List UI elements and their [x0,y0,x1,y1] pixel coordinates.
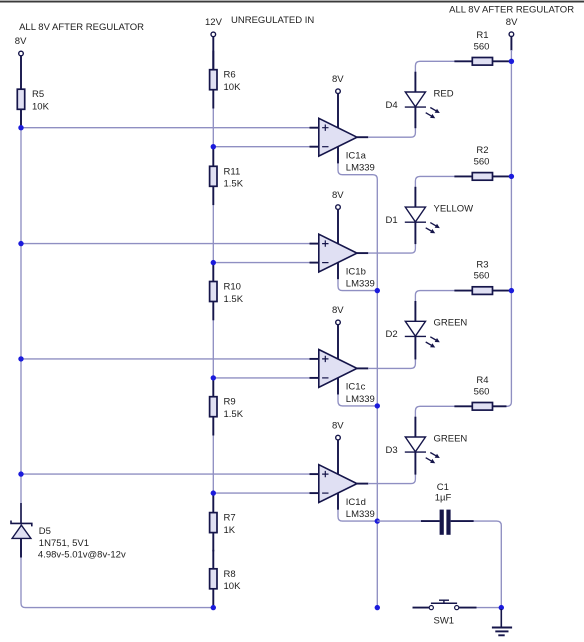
wire R2 to D1 anode [415,176,455,188]
label RED [434,88,454,99]
wire node - input IC1d (from middle rail) [211,490,312,495]
svg-text:8V: 8V [506,17,518,28]
wire right rail 8V [493,50,511,406]
label 8V power IC1d [332,420,344,431]
label R7 1K [224,513,236,536]
resistor R7 [210,494,217,552]
terminal 8V power IC1b [336,205,341,210]
node R2/rail junction [509,174,514,179]
terminal 8V (right) [509,32,514,37]
LED D3 [405,417,440,475]
label R10 1.5K [224,282,244,305]
svg-text:R1: R1 [476,30,488,41]
svg-text:ALL 8V AFTER REGULATOR: ALL 8V AFTER REGULATOR [449,5,574,16]
resistor R2 [454,173,511,181]
capacitor C1 [421,510,474,535]
label IC1c LM339 [346,382,375,405]
wire IC1b output to D1 cathode [368,243,415,253]
op-amp U1 comparator IC1b LM339 [310,210,369,280]
terminal 8V (right) label [506,17,518,28]
wire IC1c ground to bus [338,394,380,408]
wire IC1b ground to bus [338,279,380,293]
wire node - input IC1a (from middle rail) [211,144,312,149]
svg-text:ALL 8V AFTER REGULATOR: ALL 8V AFTER REGULATOR [19,22,144,33]
resistor R1 [454,58,511,66]
wire terminal pin [510,37,512,51]
svg-text:SW1: SW1 [434,615,455,626]
label YELLOW [434,204,474,215]
wire node - input IC1c (from middle rail) [211,375,312,380]
label R4 560 [474,375,490,397]
diode D5 zener [11,521,32,558]
label IC1b LM339 [346,266,375,289]
svg-text:1µF: 1µF [435,493,452,504]
wire terminal to R6 [212,37,214,70]
svg-text:IC1d: IC1d [346,497,366,508]
label SW1 [434,615,455,626]
node bus/bottom rail junction [375,605,380,610]
svg-text:4.98v-5.01v@8v-12v: 4.98v-5.01v@8v-12v [38,550,126,561]
wire IC1d output to D3 cathode [368,474,415,484]
svg-text:1.5K: 1.5K [224,294,244,305]
svg-text:R4: R4 [476,375,488,386]
label 8V power IC1b [332,190,344,201]
resistor R6 [210,51,217,109]
wire left rail (8V divider tap bus) [21,109,213,608]
op-amp U1 comparator IC1a LM339 [310,94,369,164]
resistor R9 [210,378,217,436]
svg-text:GREEN: GREEN [434,433,468,444]
resistor R11 [210,147,217,205]
label R1 560 [474,30,490,52]
svg-text:D2: D2 [386,329,398,340]
resistor R10 [210,263,217,321]
label R3 560 [474,259,490,281]
svg-text:8V: 8V [332,305,344,316]
wire C1 to ground node [474,521,502,608]
LED D2 [405,301,440,359]
note ALL 8V AFTER REGULATOR (left) [19,22,144,33]
svg-text:560: 560 [474,41,490,52]
svg-text:1N751, 5V1: 1N751, 5V1 [39,538,89,549]
svg-text:560: 560 [474,157,490,168]
svg-text:RED: RED [434,88,454,99]
svg-text:IC1b: IC1b [346,266,366,277]
terminal 12V label [205,17,223,28]
svg-text:560: 560 [474,386,490,397]
terminal 8V (left) [19,51,24,56]
svg-text:R5: R5 [32,89,44,100]
svg-text:R2: R2 [476,145,488,156]
wire node + input IC1a (from left rail) [18,125,311,130]
label IC1d LM339 [346,497,375,520]
svg-text:YELLOW: YELLOW [434,204,474,215]
svg-text:560: 560 [474,271,490,282]
note ALL 8V AFTER REGULATOR (right) [449,5,574,16]
svg-text:IC1c: IC1c [346,382,366,393]
terminal 8V power IC1c [336,320,341,325]
wire IC1d gnd node to C1 [377,520,424,522]
label C1 1uF [435,482,452,504]
svg-text:GREEN: GREEN [434,318,468,329]
note UNREGULATED IN [231,15,314,26]
label R8 10K [224,569,242,592]
node R1/rail junction [509,59,514,64]
label R11 1.5K [224,166,244,189]
svg-text:R11: R11 [224,166,241,177]
svg-text:LM339: LM339 [346,394,375,405]
switch SW1 [413,600,477,610]
resistor R3 [454,287,511,295]
node R3/rail junction [509,288,514,293]
terminal 8V power IC1d [336,435,341,440]
svg-text:8V: 8V [15,36,27,47]
LED D4 [405,72,440,129]
wire terminal to R5 [20,56,22,89]
svg-text:10K: 10K [32,102,50,113]
wire R3 to D2 anode [415,291,455,303]
resistor R4 [454,403,506,411]
svg-text:D3: D3 [386,445,398,456]
label IC1a LM339 [346,151,375,174]
label 8V power IC1c [332,305,344,316]
ground [492,609,512,635]
svg-text:D1: D1 [386,215,398,226]
wire R1 to D4 anode [415,61,455,73]
svg-text:8V: 8V [332,190,344,201]
svg-text:LM339: LM339 [346,279,375,290]
label D3 [386,445,398,456]
wire node - input IC1b (from middle rail) [211,260,312,265]
svg-text:D4: D4 [386,100,398,111]
node R8/bottom rail junction [211,605,216,610]
LED D1 [405,187,440,244]
wire IC1d ground to bus [338,510,380,524]
svg-text:8V: 8V [332,420,344,431]
wire comparator ground bus [338,163,377,607]
label GREEN [434,433,468,444]
svg-text:R7: R7 [224,513,236,524]
label GREEN [434,318,468,329]
wire SW1 to ground node [477,607,502,609]
resistor R8 [210,550,217,608]
svg-text:12V: 12V [205,17,223,28]
svg-text:UNREGULATED IN: UNREGULATED IN [231,15,314,26]
label R5 10K [32,89,50,112]
svg-text:D5: D5 [39,526,51,537]
label R2 560 [474,145,490,167]
wire IC1c output to D2 cathode [368,358,415,368]
wire node + input IC1b (from left rail) [18,241,311,246]
svg-text:C1: C1 [437,482,449,493]
svg-text:8V: 8V [332,74,344,85]
svg-text:1K: 1K [224,525,236,536]
wire R4 to D3 anode [415,406,455,418]
wire IC1a output to D4 cathode [368,127,415,137]
label R6 10K [224,70,242,93]
terminal 8V (left) label [15,36,27,47]
label D2 [386,329,398,340]
label D4 [386,100,398,111]
svg-text:10K: 10K [224,581,242,592]
wire node + input IC1d (from left rail) [18,471,311,476]
resistor R5 [17,89,24,128]
wire node + input IC1c (from left rail) [18,356,311,361]
top border line [0,1,584,3]
svg-text:R3: R3 [476,259,488,270]
terminal 12V [211,32,216,37]
label D5 1N751 [38,526,126,561]
op-amp U1 comparator IC1d LM339 [310,440,369,510]
svg-text:LM339: LM339 [346,509,375,520]
svg-text:IC1a: IC1a [346,151,367,162]
terminal 8V power IC1a [336,89,341,94]
svg-text:LM339: LM339 [346,163,375,174]
svg-text:1.5K: 1.5K [224,179,244,190]
svg-text:R10: R10 [224,282,241,293]
svg-text:R8: R8 [224,569,236,580]
wire middle rail (12V divider chain) [212,89,214,608]
label R9 1.5K [224,397,244,420]
label 8V power IC1a [332,74,344,85]
label D1 [386,215,398,226]
svg-text:R6: R6 [224,70,236,81]
op-amp U1 comparator IC1c LM339 [310,325,369,395]
svg-text:10K: 10K [224,82,242,93]
wire left rail to D5 [20,503,22,523]
node ground junction [499,605,504,610]
svg-text:R9: R9 [224,397,236,408]
svg-text:1.5K: 1.5K [224,409,244,420]
